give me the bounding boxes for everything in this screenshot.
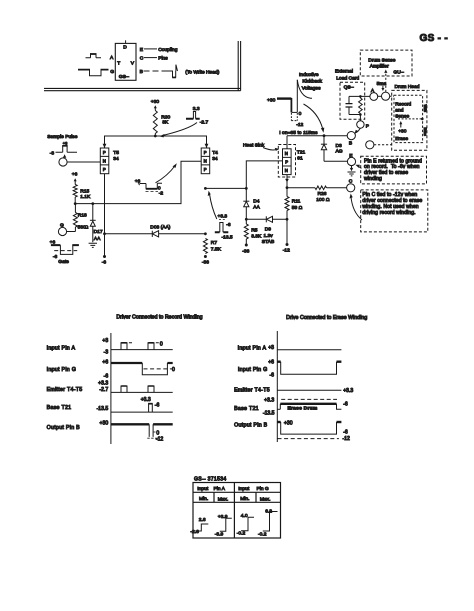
svg-text:Heat Sink: Heat Sink	[243, 142, 265, 148]
T21 collector riser	[286, 136, 288, 149]
svg-text:+3.3: +3.3	[264, 398, 274, 404]
transistor T5	[100, 148, 109, 174]
timing left: axis	[110, 333, 112, 444]
drum head box	[390, 84, 427, 150]
svg-text:GS-- 371534: GS-- 371534	[194, 477, 226, 483]
svg-text:Sample Pulse: Sample Pulse	[47, 134, 77, 140]
node P connector	[357, 121, 369, 130]
svg-text:Input Pin G: Input Pin G	[47, 367, 77, 373]
resistor R15 1.1K	[73, 185, 91, 200]
resistor R5 3.3K	[244, 219, 262, 245]
T4 emitter chain: node, R7, -36	[204, 187, 207, 190]
dashed wire erase connector to drum head	[374, 144, 392, 146]
svg-text:winding: winding	[364, 176, 382, 182]
svg-text:-36: -36	[202, 260, 209, 266]
svg-text:Write: Write	[423, 105, 427, 113]
T21 base wire	[246, 161, 282, 189]
svg-text:1.3v: 1.3v	[264, 233, 274, 239]
svg-text:P: P	[366, 123, 369, 129]
svg-text:-13.5: -13.5	[222, 234, 233, 240]
legend: input G waveform	[78, 70, 109, 76]
svg-text:5ma: 5ma	[377, 81, 387, 87]
svg-text:-6: -6	[53, 254, 58, 260]
+30 supply above R30	[151, 99, 160, 110]
wire P to B with arrow	[356, 128, 360, 132]
svg-text:3K: 3K	[162, 119, 169, 125]
svg-text:Inductive: Inductive	[299, 72, 319, 78]
svg-text:Max.: Max.	[260, 496, 271, 502]
svg-text:B: B	[140, 69, 143, 75]
svg-text:Drive Connected to Erase Windi: Drive Connected to Erase Winding	[286, 315, 367, 321]
resistor R26 100ohm	[287, 186, 347, 203]
svg-text:R15: R15	[80, 188, 89, 194]
node B connector	[347, 132, 355, 147]
svg-text:QS--: QS--	[344, 84, 355, 90]
svg-text:T4: T4	[212, 150, 218, 156]
legend: input A waveform	[86, 54, 102, 58]
svg-text:Kickback: Kickback	[302, 79, 322, 85]
resistor R30 3K	[153, 111, 170, 134]
svg-text:Erase: Erase	[395, 136, 408, 142]
timing left row: Output Pin B	[47, 420, 173, 442]
svg-text:Erase Drum: Erase Drum	[288, 405, 318, 411]
legend pin B to write head	[140, 65, 220, 78]
svg-text:+6: +6	[268, 360, 274, 366]
svg-text:-12: -12	[283, 248, 290, 254]
svg-text:GS - -: GS - -	[420, 33, 448, 44]
dashed line to drum sense amplifier	[385, 72, 387, 92]
svg-text:-6: -6	[104, 373, 109, 379]
svg-text:7.5K: 7.5K	[211, 246, 222, 252]
svg-text:-3.9: -3.9	[215, 531, 224, 537]
svg-text:R5: R5	[251, 227, 258, 233]
wire T4 emitter to D4	[205, 187, 246, 189]
svg-text:Input: Input	[197, 486, 209, 492]
svg-text:D06 (AA): D06 (AA)	[150, 224, 170, 230]
svg-text:-6: -6	[343, 402, 348, 408]
svg-text:+30: +30	[100, 420, 109, 426]
drum sense amplifier box GU--	[360, 50, 412, 76]
ground below E	[348, 166, 356, 176]
svg-text:+3: +3	[268, 345, 274, 351]
svg-text:P: P	[204, 150, 207, 155]
svg-text:(To Write Head): (To Write Head)	[185, 70, 220, 76]
svg-text:34: 34	[113, 156, 119, 162]
svg-text:D3: D3	[336, 143, 343, 149]
svg-text:V: V	[131, 60, 135, 66]
svg-text:+30: +30	[398, 128, 407, 134]
svg-text:E: E	[349, 153, 353, 159]
svg-text:Emitter T4-T5: Emitter T4-T5	[47, 387, 83, 393]
table cell: pin A min	[190, 517, 208, 535]
svg-text:Drum Sense: Drum Sense	[368, 57, 395, 63]
svg-text:Driver Connected to Record Win: Driver Connected to Record Winding	[116, 315, 202, 321]
diode D3 AG	[321, 136, 327, 162]
+3.3/-6/-13.5 waveform annotation	[208, 191, 233, 241]
0/-2 waveform annotation at T5/T4	[135, 163, 177, 196]
load card wires	[349, 96, 370, 120]
resistor in load card	[359, 98, 363, 114]
svg-text:Coupling: Coupling	[158, 47, 178, 53]
svg-text:Input: Input	[238, 486, 250, 492]
svg-text:P: P	[103, 150, 106, 155]
node C connector	[347, 179, 355, 192]
wire T5 collector down to -6	[104, 174, 106, 257]
node E connector	[347, 153, 355, 165]
svg-text:Pin A: Pin A	[214, 486, 226, 492]
border frame (partial page border)	[44, 41, 241, 91]
timing left row: Input Pin G	[47, 360, 175, 380]
main output wire to B	[287, 135, 347, 137]
svg-text:E: E	[140, 47, 144, 53]
svg-text:+3: +3	[63, 141, 68, 146]
svg-text:Output Pin B: Output Pin B	[47, 425, 81, 431]
svg-text:AA: AA	[94, 236, 101, 242]
svg-text:D: D	[123, 44, 127, 50]
diode D06 (AA)	[105, 231, 206, 237]
svg-text:+3.3: +3.3	[141, 397, 151, 403]
svg-text:AA: AA	[253, 205, 260, 211]
legend pin C pins	[140, 55, 168, 61]
svg-text:-6: -6	[269, 372, 274, 378]
svg-text:+30: +30	[267, 97, 276, 103]
svg-text:T5: T5	[113, 150, 119, 156]
table grid	[193, 483, 281, 539]
svg-text:D9: D9	[265, 227, 272, 233]
svg-text:C: C	[349, 179, 353, 185]
diode D4 AA	[243, 188, 249, 219]
svg-text:B: B	[349, 141, 352, 147]
arrow into T4 emitter	[205, 144, 209, 148]
5ma label with arrow	[377, 81, 387, 91]
svg-text:T21: T21	[297, 149, 306, 155]
svg-text:34: 34	[212, 156, 218, 162]
svg-text:D17: D17	[94, 229, 103, 235]
note box pin C	[350, 190, 428, 232]
svg-text:-6: -6	[155, 402, 160, 408]
T21 emitter arrow down	[286, 175, 288, 188]
svg-text:Gate: Gate	[58, 259, 69, 265]
timing left row: Base T21	[47, 397, 173, 412]
svg-text:+6: +6	[72, 171, 78, 177]
svg-text:Record: Record	[395, 101, 411, 107]
wire sample pulse to T5 base	[67, 161, 100, 163]
node A connector	[370, 88, 378, 101]
svg-text:Base T21: Base T21	[234, 406, 259, 412]
svg-text:-13.5: -13.5	[263, 411, 275, 417]
svg-text:N: N	[103, 159, 106, 164]
svg-text:0: 0	[299, 111, 302, 117]
svg-text:Base T21: Base T21	[47, 405, 72, 411]
transistor T4	[201, 148, 210, 174]
svg-text:-0.2: -0.2	[258, 531, 267, 537]
svg-text:Input Pin A: Input Pin A	[47, 345, 76, 351]
timing right row: Emitter T4-T5	[234, 388, 353, 395]
timing left row: Input Pin A	[47, 338, 173, 355]
capacitor in load card	[346, 96, 353, 114]
svg-text:+3.3: +3.3	[218, 214, 228, 220]
svg-text:N: N	[285, 168, 288, 173]
svg-text:-13.5: -13.5	[97, 406, 109, 412]
svg-text:Min.: Min.	[199, 496, 208, 502]
svg-text:-3: -3	[50, 150, 55, 156]
svg-text:91: 91	[297, 155, 303, 161]
svg-text:3.3K: 3.3K	[251, 234, 262, 240]
svg-text:+30: +30	[284, 421, 293, 427]
svg-text:R11: R11	[292, 198, 301, 204]
ground below D17	[89, 243, 97, 247]
svg-text:P: P	[103, 167, 106, 172]
diode D9 1.3v STAB	[246, 216, 287, 222]
node: sample pulse connector circle	[59, 158, 67, 166]
svg-text:Ω: Ω	[85, 224, 89, 230]
svg-text:Min.: Min.	[240, 496, 249, 502]
svg-text:-2: -2	[159, 191, 164, 197]
svg-text:G: G	[110, 69, 114, 75]
timing right row: Output Pin B	[234, 421, 350, 443]
svg-text:0: 0	[160, 341, 163, 347]
svg-text:1.1K: 1.1K	[80, 194, 91, 200]
svg-text:Voltages: Voltages	[302, 86, 321, 92]
svg-text:-6: -6	[102, 260, 107, 266]
svg-text:N: N	[204, 159, 207, 164]
svg-text:59 Ω: 59 Ω	[292, 205, 303, 211]
svg-text:P: P	[204, 167, 207, 172]
table cell: pin G min	[237, 513, 254, 536]
emitter waveform annotation 3.3/-2.7	[159, 106, 208, 137]
timing right row: Base T21 erase drum	[234, 398, 348, 417]
svg-text:Pin G: Pin G	[257, 486, 269, 492]
svg-text:-12: -12	[343, 436, 351, 442]
svg-text:AG: AG	[336, 149, 343, 155]
svg-text:-2.7: -2.7	[200, 119, 209, 125]
svg-text:R26: R26	[318, 191, 327, 197]
svg-text:-2.7: -2.7	[99, 387, 108, 393]
svg-text:-2.6: -2.6	[190, 529, 199, 535]
table cell: pin G max	[258, 508, 278, 537]
transistor T21 (heat sink dashed box)	[278, 145, 295, 178]
svg-text:Erase: Erase	[423, 128, 427, 137]
svg-text:STAB: STAB	[262, 239, 274, 245]
svg-text:100 Ω: 100 Ω	[316, 197, 330, 203]
svg-text:Amplifier: Amplifier	[370, 64, 389, 70]
timing right: axis	[276, 331, 278, 442]
svg-text:4.0: 4.0	[241, 513, 248, 519]
+6 supply above R15	[72, 171, 78, 184]
svg-text:-6: -6	[343, 429, 348, 435]
svg-text:-12: -12	[156, 436, 164, 442]
svg-text:driving record winding.: driving record winding.	[362, 210, 415, 216]
timing left row: Emitter T4-T5	[47, 381, 173, 394]
note box pin E	[355, 156, 426, 184]
svg-text:+3.3: +3.3	[343, 388, 353, 394]
svg-text:+3.3: +3.3	[98, 381, 108, 387]
node emitter bus junction	[154, 135, 157, 138]
wire R15 node to T4 base	[75, 161, 201, 203]
external load card box QS--	[335, 69, 365, 120]
diode D17 AA	[90, 204, 96, 243]
resistor R11 59ohm	[285, 188, 303, 245]
heat sink label + arrow	[243, 142, 279, 151]
gate waveform +6/-6	[50, 239, 79, 265]
svg-text:Input Pin G: Input Pin G	[238, 367, 268, 373]
svg-text:R18: R18	[78, 212, 87, 218]
svg-text:0: 0	[172, 367, 175, 373]
node drum-head pin circle	[382, 92, 390, 100]
legend pin E coupling	[140, 47, 178, 53]
table cell: pin A max	[215, 514, 232, 537]
svg-text:-3: -3	[104, 349, 109, 355]
wire D3 to E	[324, 160, 347, 162]
svg-text:2.6: 2.6	[199, 517, 206, 523]
svg-text:External: External	[335, 69, 353, 75]
svg-text:-6: -6	[226, 222, 231, 228]
svg-text:R7: R7	[211, 240, 218, 246]
+30 supply / inductive kickback annotation	[267, 80, 312, 128]
svg-text:-12: -12	[296, 122, 303, 128]
arrow into T5 emitter	[103, 144, 107, 148]
svg-text:GS--: GS--	[119, 74, 130, 80]
svg-text:Load Card: Load Card	[336, 75, 359, 81]
svg-text:GU--: GU--	[393, 69, 404, 75]
svg-text:Max.: Max.	[218, 496, 229, 502]
svg-text:P: P	[285, 160, 288, 165]
svg-text:+3: +3	[102, 338, 108, 344]
svg-text:Output Pin B: Output Pin B	[234, 422, 268, 428]
svg-text:+30: +30	[151, 99, 160, 105]
svg-text:Drum Head: Drum Head	[395, 84, 420, 90]
svg-text:D4: D4	[253, 198, 260, 204]
svg-text:T: T	[117, 60, 120, 66]
node erase connector circle	[366, 141, 374, 149]
svg-text:C: C	[140, 56, 144, 62]
emitter bus wire	[105, 134, 207, 149]
svg-text:A: A	[110, 55, 114, 61]
timing right row: Input Pin A	[238, 345, 342, 351]
svg-text:I on=85 to 115ms: I on=85 to 115ms	[279, 130, 318, 136]
svg-text:Emitter T4-T5: Emitter T4-T5	[234, 388, 270, 394]
timing right row: Input Pin G	[238, 360, 342, 379]
resistor R18 560ohm	[73, 204, 88, 232]
svg-text:Pins: Pins	[158, 55, 168, 61]
node G connector circle	[58, 223, 75, 236]
svg-text:N: N	[285, 151, 288, 156]
svg-text:+6: +6	[102, 360, 108, 366]
sample pulse waveform	[50, 141, 77, 158]
legend: driver block GS--	[125, 40, 127, 43]
svg-text:Input Pin A: Input Pin A	[238, 345, 267, 351]
svg-text:-36: -36	[242, 248, 249, 254]
svg-text:and: and	[395, 108, 403, 114]
curved arrow kickback to wire	[304, 104, 323, 129]
